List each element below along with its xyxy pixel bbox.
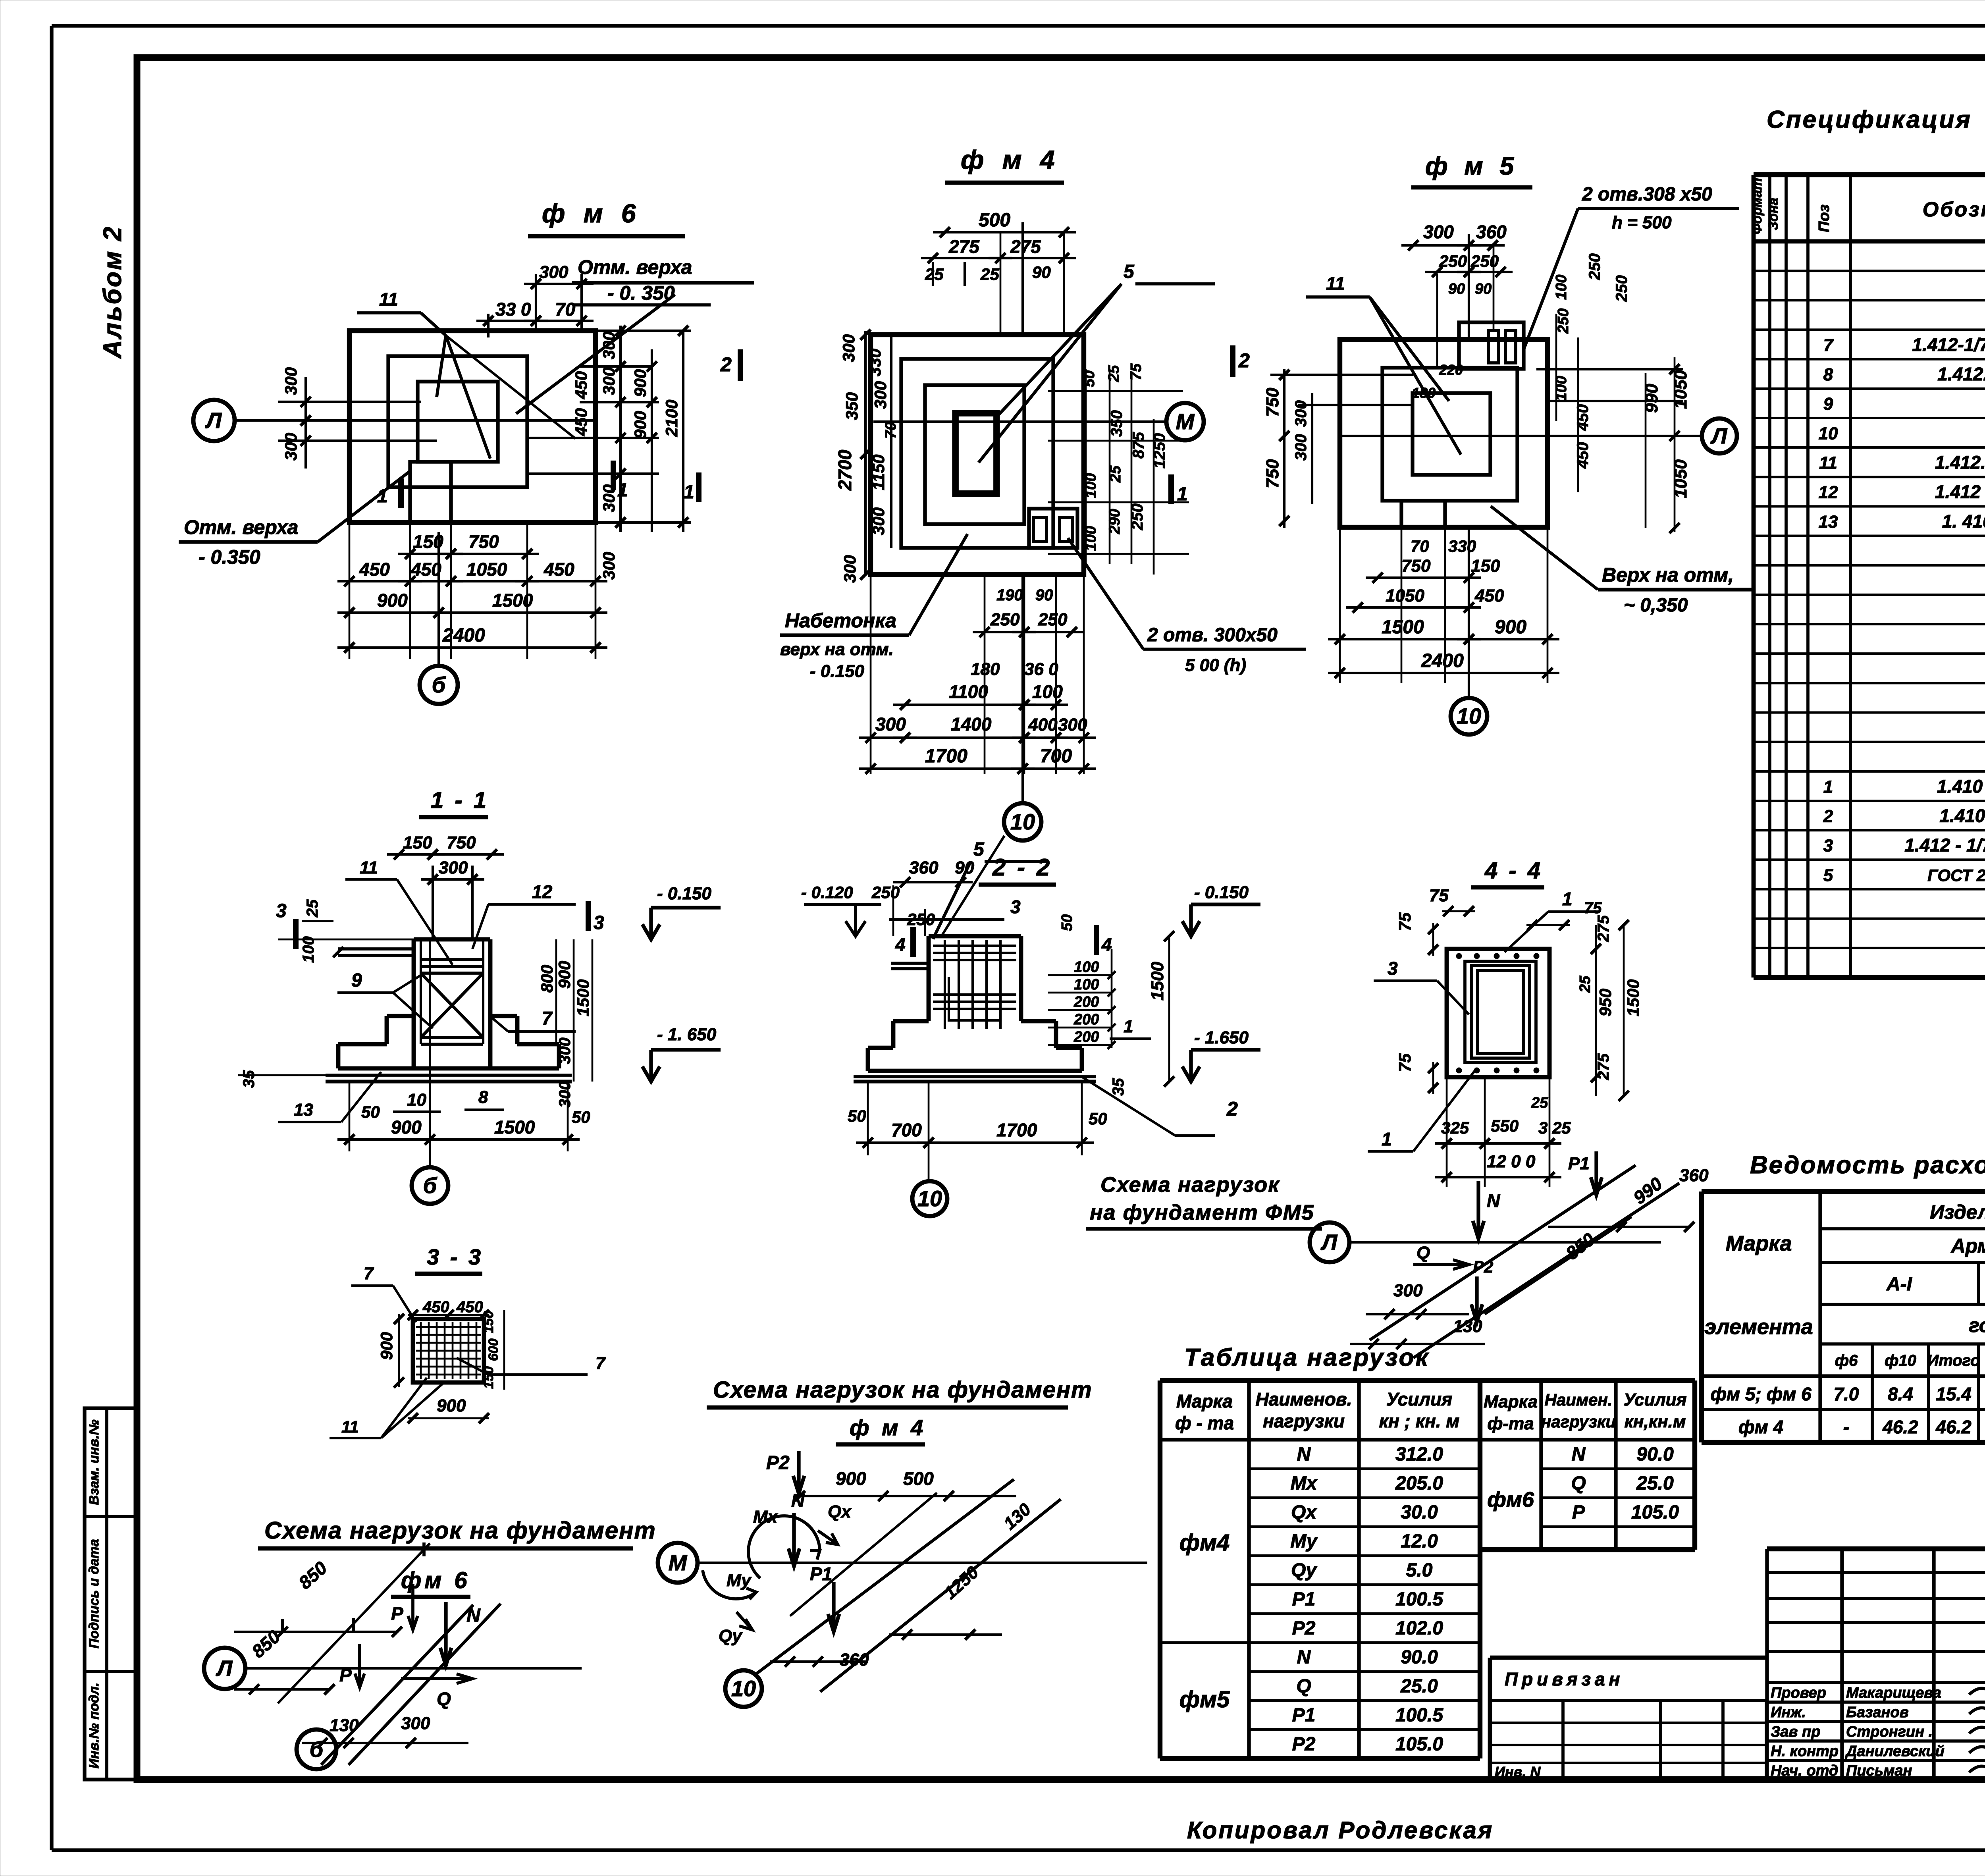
svg-text:1: 1: [1124, 1017, 1133, 1036]
svg-text:15.4: 15.4: [1936, 1384, 1972, 1404]
svg-text:75: 75: [1395, 912, 1414, 931]
svg-text:13: 13: [1819, 512, 1838, 532]
svg-text:б: б: [310, 1737, 324, 1762]
svg-text:5.0: 5.0: [1406, 1560, 1433, 1581]
svg-text:нагрузки: нагрузки: [1263, 1411, 1345, 1431]
svg-text:46.2: 46.2: [1935, 1417, 1972, 1437]
svg-text:300: 300: [281, 433, 300, 461]
svg-text:Марка: Марка: [1484, 1392, 1538, 1411]
svg-text:Поз: Поз: [1816, 204, 1833, 232]
svg-text:Схема нагрузок на фундамент: Схема нагрузок на фундамент: [713, 1377, 1093, 1403]
svg-text:8: 8: [1823, 365, 1833, 384]
svg-text:100: 100: [1074, 976, 1099, 993]
svg-text:1: 1: [684, 482, 694, 503]
svg-text:Взам. инв.№: Взам. инв.№: [87, 1419, 102, 1505]
svg-text:300: 300: [1393, 1281, 1423, 1300]
svg-text:50: 50: [1059, 914, 1075, 931]
svg-text:Базанов: Базанов: [1846, 1704, 1909, 1721]
svg-text:105.0: 105.0: [1631, 1502, 1679, 1523]
svg-text:11: 11: [360, 858, 378, 877]
svg-text:700: 700: [891, 1120, 922, 1140]
svg-text:Qх: Qх: [828, 1502, 852, 1521]
svg-text:Отм. верха: Отм. верха: [578, 256, 692, 278]
svg-text:N: N: [791, 1490, 805, 1511]
svg-text:450: 450: [572, 408, 590, 436]
svg-text:б: б: [423, 1173, 437, 1198]
svg-text:250: 250: [907, 910, 935, 929]
svg-text:750: 750: [447, 833, 476, 852]
svg-text:Данилевский: Данилевский: [1845, 1743, 1945, 1760]
svg-text:Qу: Qу: [719, 1626, 743, 1646]
svg-text:Нач. отд: Нач. отд: [1771, 1762, 1838, 1779]
svg-text:2: 2: [1226, 1098, 1238, 1120]
svg-text:5: 5: [1823, 866, 1833, 885]
svg-text:Таблица нагрузок: Таблица нагрузок: [1184, 1344, 1430, 1371]
svg-text:300: 300: [599, 332, 618, 359]
svg-text:90: 90: [1475, 281, 1492, 297]
svg-text:150: 150: [1471, 556, 1500, 576]
svg-text:190: 190: [996, 586, 1023, 604]
svg-text:1400: 1400: [951, 714, 992, 735]
svg-text:70: 70: [1411, 537, 1429, 555]
svg-text:10: 10: [1457, 704, 1481, 729]
svg-text:750: 750: [1263, 459, 1282, 488]
svg-text:4: 4: [895, 934, 906, 955]
svg-text:Наимен.: Наимен.: [1545, 1390, 1613, 1409]
svg-text:1050: 1050: [466, 559, 507, 580]
svg-text:250: 250: [871, 883, 900, 902]
svg-text:90.0: 90.0: [1401, 1647, 1438, 1668]
svg-text:220: 220: [1439, 362, 1463, 378]
svg-text:ГОСТ 24379.1 - 80: ГОСТ 24379.1 - 80: [1927, 866, 1985, 885]
svg-text:нагрузки: нагрузки: [1541, 1412, 1616, 1431]
svg-text:б: б: [432, 672, 446, 697]
svg-text:3: 3: [594, 912, 604, 933]
svg-text:750: 750: [1263, 388, 1282, 417]
svg-text:Ведомость расхода стали на эле: Ведомость расхода стали на элемент, кг: [1750, 1151, 1985, 1179]
svg-text:900: 900: [555, 961, 574, 989]
svg-text:300: 300: [1292, 434, 1310, 461]
svg-text:Схема нагрузок: Схема нагрузок: [1100, 1173, 1280, 1197]
svg-text:Р: Р: [391, 1603, 403, 1624]
svg-text:75: 75: [1128, 363, 1145, 380]
svg-text:3: 3: [1010, 897, 1021, 917]
svg-text:900: 900: [836, 1468, 866, 1489]
svg-text:350: 350: [1108, 410, 1125, 437]
svg-text:2: 2: [1823, 806, 1833, 826]
svg-text:Q: Q: [1571, 1473, 1586, 1494]
svg-text:250: 250: [1586, 253, 1603, 280]
svg-text:8.4: 8.4: [1888, 1384, 1913, 1404]
svg-text:1500: 1500: [1382, 617, 1424, 638]
svg-text:300: 300: [869, 507, 888, 535]
svg-text:3: 3: [1388, 958, 1398, 979]
svg-text:25: 25: [1577, 976, 1594, 993]
svg-text:8: 8: [478, 1087, 488, 1107]
svg-text:- 0.350: - 0.350: [198, 546, 260, 568]
svg-text:1150: 1150: [869, 455, 888, 490]
svg-text:180: 180: [1412, 385, 1436, 401]
svg-text:330: 330: [865, 349, 884, 376]
svg-text:7: 7: [364, 1264, 374, 1283]
svg-text:450: 450: [422, 1298, 449, 1316]
svg-text:Провер: Провер: [1771, 1685, 1826, 1701]
svg-text:12.0: 12.0: [1401, 1531, 1438, 1552]
svg-text:фм 4: фм 4: [1738, 1417, 1783, 1437]
svg-text:50: 50: [1089, 1109, 1107, 1128]
svg-text:М: М: [669, 1550, 688, 1575]
svg-text:11: 11: [379, 289, 398, 310]
svg-text:Р: Р: [1572, 1502, 1585, 1523]
svg-text:Обозначение: Обозначение: [1923, 198, 1985, 221]
svg-text:70: 70: [883, 422, 899, 439]
svg-text:фм5: фм5: [1179, 1687, 1230, 1712]
svg-text:Схема нагрузок на фундамент: Схема нагрузок на фундамент: [264, 1517, 656, 1544]
svg-text:12: 12: [1819, 483, 1838, 502]
svg-text:- 0.120: - 0.120: [801, 883, 853, 902]
svg-text:Р1: Р1: [1292, 1589, 1316, 1610]
svg-text:1.412.1- 4 . 060: 1.412.1- 4 . 060: [1935, 452, 1985, 473]
svg-text:200: 200: [1073, 1029, 1099, 1045]
svg-text:250: 250: [1439, 252, 1467, 270]
svg-text:1.412 - 1/77 - В.3 - 060: 1.412 - 1/77 - В.3 - 060: [1904, 835, 1985, 856]
svg-text:250: 250: [1470, 252, 1499, 270]
svg-text:250: 250: [1613, 275, 1630, 302]
svg-text:25: 25: [1106, 365, 1122, 382]
svg-text:9: 9: [351, 970, 362, 991]
svg-text:ф - та: ф - та: [1175, 1413, 1234, 1433]
svg-text:элемента: элемента: [1704, 1315, 1813, 1339]
svg-text:10: 10: [917, 1186, 942, 1211]
svg-text:1: 1: [1823, 777, 1833, 796]
svg-text:Л: Л: [216, 1656, 233, 1681]
svg-text:2 отв. 300х50: 2 отв. 300х50: [1147, 625, 1278, 646]
svg-text:Усилия: Усилия: [1623, 1390, 1686, 1409]
svg-text:300: 300: [539, 262, 569, 282]
svg-text:А-I: А-I: [1886, 1274, 1913, 1295]
svg-text:1500: 1500: [492, 590, 533, 611]
svg-text:450: 450: [1574, 404, 1592, 431]
svg-text:1.412 .1- 4. 050: 1.412 .1- 4. 050: [1935, 482, 1985, 502]
svg-text:1500: 1500: [494, 1117, 535, 1138]
svg-text:Изделия арматурные: Изделия арматурные: [1930, 1201, 1985, 1223]
svg-text:2100: 2100: [662, 400, 681, 437]
svg-text:Набетонка: Набетонка: [785, 609, 896, 632]
svg-text:900: 900: [391, 1117, 422, 1138]
svg-text:1.410 - 3.1 - 02: 1.410 - 3.1 - 02: [1937, 776, 1985, 796]
svg-text:Р1: Р1: [1568, 1154, 1590, 1173]
svg-text:N: N: [1487, 1190, 1500, 1211]
svg-text:25: 25: [925, 265, 944, 283]
svg-text:100.5: 100.5: [1395, 1589, 1443, 1610]
svg-text:М: М: [1176, 409, 1195, 434]
svg-text:200: 200: [1073, 1011, 1099, 1028]
svg-text:- 1.650: - 1.650: [1194, 1028, 1249, 1047]
svg-text:130: 130: [330, 1716, 359, 1735]
svg-text:Формат: Формат: [1750, 178, 1765, 234]
svg-text:50: 50: [848, 1107, 866, 1125]
svg-text:25: 25: [1531, 1095, 1548, 1111]
svg-text:800: 800: [538, 965, 556, 993]
svg-text:Наименов.: Наименов.: [1256, 1389, 1352, 1409]
svg-text:10: 10: [731, 1676, 756, 1701]
svg-text:900: 900: [631, 411, 649, 439]
svg-text:100: 100: [1074, 959, 1099, 976]
svg-text:Инж.: Инж.: [1771, 1704, 1806, 1721]
svg-text:ф10: ф10: [1885, 1352, 1916, 1369]
svg-text:Спецификация: Спецификация: [1767, 106, 1972, 133]
svg-text:Привязан: Привязан: [1505, 1669, 1624, 1689]
svg-text:верх на отм.: верх на отм.: [780, 640, 894, 659]
svg-text:275: 275: [948, 236, 980, 257]
svg-text:300: 300: [1058, 715, 1087, 735]
svg-text:11: 11: [1819, 453, 1837, 473]
svg-text:7: 7: [1823, 335, 1834, 355]
svg-text:Р: Р: [339, 1665, 352, 1685]
svg-text:250: 250: [1038, 610, 1068, 629]
svg-text:300: 300: [840, 555, 859, 583]
svg-text:33 0: 33 0: [495, 299, 531, 320]
svg-text:Н. контр: Н. контр: [1771, 1743, 1839, 1760]
svg-text:300: 300: [599, 367, 618, 395]
svg-text:350: 350: [842, 392, 861, 420]
svg-text:2400: 2400: [442, 625, 485, 646]
svg-text:1050: 1050: [1386, 586, 1424, 605]
svg-text:150: 150: [403, 833, 432, 852]
svg-text:ф м 4: ф м 4: [961, 145, 1060, 174]
svg-text:70: 70: [555, 299, 576, 320]
svg-text:1.412.1- 4. 080: 1.412.1- 4. 080: [1937, 364, 1985, 384]
svg-text:2 - 2: 2 - 2: [992, 854, 1052, 881]
svg-text:Му: Му: [727, 1571, 752, 1590]
svg-text:1700: 1700: [996, 1120, 1037, 1140]
svg-text:7: 7: [595, 1353, 606, 1373]
svg-text:1.412-1/77 - В.3 -100: 1.412-1/77 - В.3 -100: [1912, 334, 1985, 355]
svg-text:900: 900: [377, 590, 408, 611]
svg-text:12: 12: [532, 881, 553, 902]
svg-text:900: 900: [1495, 617, 1526, 638]
svg-text:4 - 4: 4 - 4: [1484, 858, 1543, 883]
svg-text:35: 35: [240, 1070, 258, 1088]
svg-text:Инв. N: Инв. N: [1495, 1764, 1541, 1780]
svg-text:90: 90: [1448, 281, 1465, 297]
svg-text:400: 400: [1028, 715, 1058, 735]
svg-text:2 отв.308 х50: 2 отв.308 х50: [1582, 184, 1712, 205]
svg-text:Мх: Мх: [753, 1507, 778, 1527]
svg-text:130: 130: [1453, 1317, 1482, 1336]
svg-text:105.0: 105.0: [1395, 1734, 1443, 1755]
svg-text:1: 1: [377, 486, 388, 507]
svg-text:875: 875: [1130, 432, 1147, 459]
svg-text:2400: 2400: [1421, 650, 1464, 671]
svg-text:450: 450: [410, 559, 441, 580]
svg-text:Усилия: Усилия: [1386, 1389, 1452, 1409]
svg-text:Подпись и дата: Подпись и дата: [87, 1539, 102, 1648]
svg-text:360: 360: [840, 1650, 869, 1670]
svg-text:360: 360: [1476, 222, 1507, 242]
svg-text:450: 450: [1474, 586, 1504, 605]
svg-text:Альбом 2: Альбом 2: [98, 225, 127, 359]
svg-text:300: 300: [871, 381, 890, 409]
svg-text:1: 1: [617, 480, 628, 501]
svg-text:180: 180: [971, 659, 1000, 679]
svg-text:50: 50: [361, 1103, 380, 1121]
svg-text:Р2: Р2: [1473, 1257, 1493, 1276]
svg-text:25.0: 25.0: [1636, 1473, 1674, 1494]
svg-text:330: 330: [1448, 537, 1476, 555]
svg-text:Марка: Марка: [1726, 1232, 1792, 1255]
svg-text:10: 10: [1010, 809, 1035, 834]
svg-text:Qу: Qу: [1291, 1560, 1317, 1581]
svg-text:10: 10: [407, 1090, 426, 1110]
svg-text:900: 900: [437, 1396, 466, 1415]
svg-text:5: 5: [1124, 261, 1135, 282]
svg-text:360: 360: [909, 858, 939, 877]
svg-text:13: 13: [294, 1100, 313, 1120]
svg-text:Итого: Итого: [1927, 1352, 1980, 1369]
svg-text:Арматура класса: Арматура класса: [1950, 1235, 1985, 1257]
svg-text:5: 5: [973, 839, 985, 860]
svg-text:1100: 1100: [949, 681, 988, 702]
svg-text:Отм. верха: Отм. верха: [184, 516, 298, 538]
svg-text:Р1: Р1: [810, 1564, 832, 1584]
svg-text:7.0: 7.0: [1834, 1384, 1859, 1404]
svg-text:700: 700: [1040, 746, 1072, 767]
svg-text:90.0: 90.0: [1636, 1444, 1674, 1465]
svg-text:2: 2: [720, 353, 732, 376]
svg-text:кн,кн.м: кн,кн.м: [1625, 1412, 1686, 1431]
svg-text:300: 300: [556, 1081, 574, 1108]
svg-text:1: 1: [1177, 484, 1188, 505]
svg-text:Письман: Письман: [1846, 1762, 1912, 1779]
svg-text:150: 150: [481, 1311, 496, 1333]
svg-text:фм 5; фм 6: фм 5; фм 6: [1710, 1384, 1812, 1404]
svg-text:100: 100: [1032, 681, 1063, 702]
svg-text:фм4: фм4: [1179, 1530, 1230, 1556]
svg-text:- 0.150: - 0.150: [810, 661, 865, 681]
svg-text:500: 500: [979, 210, 1010, 231]
svg-text:1700: 1700: [925, 746, 967, 767]
svg-text:кн ; кн. м: кн ; кн. м: [1379, 1411, 1460, 1431]
svg-text:1500: 1500: [574, 979, 592, 1016]
svg-text:25: 25: [304, 899, 321, 918]
svg-text:- 1. 650: - 1. 650: [657, 1025, 717, 1044]
svg-text:Мх: Мх: [1291, 1473, 1318, 1494]
svg-text:750: 750: [468, 531, 499, 552]
svg-text:450: 450: [456, 1298, 483, 1316]
svg-text:Qх: Qх: [1291, 1502, 1317, 1523]
svg-text:750: 750: [1401, 556, 1431, 576]
svg-text:- 0.150: - 0.150: [1194, 883, 1249, 902]
svg-text:1500: 1500: [1624, 979, 1642, 1016]
svg-text:Р1: Р1: [1292, 1705, 1316, 1726]
svg-text:30.0: 30.0: [1401, 1502, 1438, 1523]
svg-text:9: 9: [1823, 394, 1833, 414]
svg-text:450: 450: [1574, 442, 1592, 469]
svg-text:900: 900: [377, 1332, 396, 1360]
svg-text:Копировал Родлевская: Копировал Родлевская: [1187, 1817, 1494, 1843]
svg-text:300: 300: [1423, 222, 1454, 242]
svg-text:205.0: 205.0: [1395, 1473, 1443, 1494]
svg-text:Стронгин .: Стронгин .: [1846, 1724, 1933, 1740]
svg-text:300: 300: [281, 367, 300, 395]
svg-text:100.5: 100.5: [1395, 1705, 1443, 1726]
svg-text:3 - 3: 3 - 3: [427, 1244, 483, 1269]
svg-text:Марка: Марка: [1176, 1391, 1233, 1411]
svg-text:гост 5781 - 82: гост 5781 - 82: [1969, 1314, 1985, 1336]
svg-text:75: 75: [1395, 1053, 1414, 1072]
svg-text:50: 50: [1081, 370, 1098, 387]
svg-text:1.410 - 3.1 -12: 1.410 - 3.1 -12: [1939, 805, 1985, 826]
svg-text:-: -: [1843, 1417, 1849, 1437]
svg-text:ф м 6: ф м 6: [542, 199, 642, 228]
svg-text:N: N: [1572, 1444, 1586, 1465]
svg-text:1: 1: [1382, 1129, 1392, 1149]
svg-text:Л: Л: [205, 408, 222, 433]
svg-text:300: 300: [439, 858, 468, 877]
svg-text:7: 7: [542, 1008, 553, 1028]
svg-text:N: N: [1297, 1444, 1311, 1465]
svg-text:2: 2: [1238, 349, 1250, 372]
svg-text:90: 90: [1032, 263, 1051, 281]
svg-text:N: N: [1297, 1647, 1311, 1668]
svg-text:Q: Q: [1296, 1676, 1311, 1697]
svg-text:312.0: 312.0: [1395, 1444, 1443, 1465]
svg-text:50: 50: [572, 1108, 590, 1126]
svg-text:1 - 1: 1 - 1: [431, 787, 489, 813]
svg-text:300: 300: [839, 334, 858, 362]
svg-text:Инв.№ подл.: Инв.№ подл.: [87, 1683, 102, 1769]
svg-text:Макарищева: Макарищева: [1846, 1685, 1941, 1701]
svg-text:100: 100: [1553, 275, 1570, 300]
svg-text:25: 25: [980, 265, 999, 283]
svg-text:90: 90: [1035, 586, 1053, 604]
svg-text:275: 275: [1010, 236, 1041, 257]
svg-text:Зона: Зона: [1766, 198, 1781, 230]
svg-text:550: 550: [1491, 1116, 1519, 1135]
svg-text:75: 75: [1584, 899, 1602, 917]
svg-text:450: 450: [543, 559, 574, 580]
svg-text:900: 900: [631, 369, 649, 397]
svg-text:Q: Q: [1416, 1243, 1430, 1263]
svg-text:300: 300: [599, 552, 618, 580]
svg-text:950: 950: [1596, 989, 1615, 1016]
svg-text:ф м 5: ф м 5: [1425, 152, 1519, 180]
svg-text:200: 200: [1073, 994, 1099, 1010]
svg-text:~ 0,350: ~ 0,350: [1624, 595, 1688, 616]
svg-text:35: 35: [1110, 1078, 1127, 1096]
svg-text:1: 1: [1562, 889, 1573, 909]
svg-text:275: 275: [1595, 915, 1612, 942]
svg-text:Л: Л: [1710, 423, 1728, 448]
svg-text:450: 450: [359, 559, 390, 580]
svg-text:150: 150: [481, 1366, 496, 1389]
svg-text:ф6: ф6: [1835, 1352, 1858, 1369]
svg-text:325: 325: [1441, 1118, 1469, 1137]
svg-text:Q: Q: [437, 1689, 451, 1709]
svg-text:11: 11: [341, 1417, 359, 1436]
svg-text:360: 360: [1679, 1166, 1709, 1185]
svg-text:75: 75: [1429, 886, 1449, 905]
svg-text:4: 4: [1101, 934, 1112, 955]
svg-text:Р2: Р2: [1292, 1734, 1316, 1755]
svg-text:250: 250: [990, 610, 1020, 629]
svg-text:фм6: фм6: [1487, 1488, 1534, 1512]
svg-text:Л: Л: [1320, 1230, 1338, 1255]
svg-text:500: 500: [903, 1468, 934, 1489]
svg-text:на фундамент ФМ5: на фундамент ФМ5: [1090, 1201, 1314, 1224]
svg-text:250: 250: [1555, 308, 1572, 334]
